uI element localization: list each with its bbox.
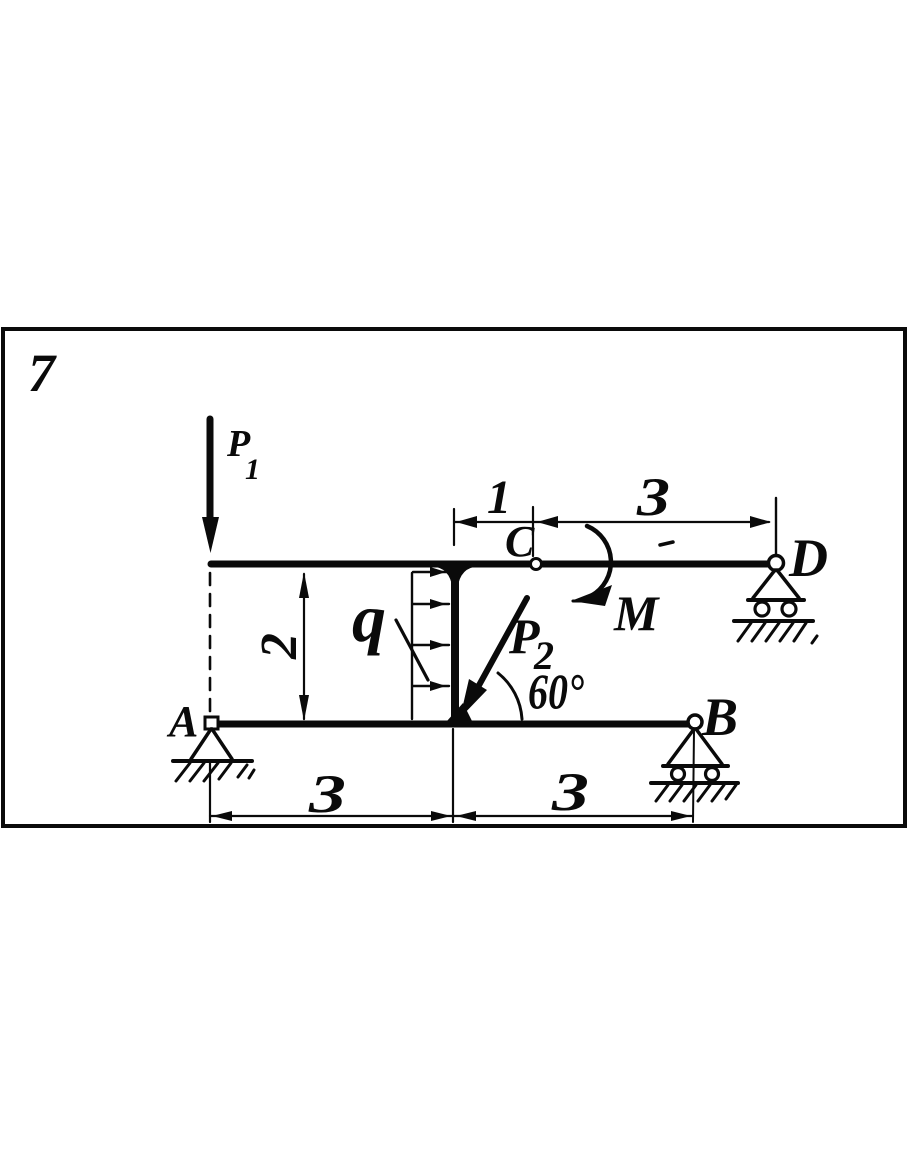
svg-text:3: 3 [636, 467, 670, 527]
distributed load q line [411, 573, 413, 719]
moment M tail stroke [573, 600, 590, 603]
support B triangle [668, 729, 722, 764]
bottom dim arrowhead mid pointing left [456, 811, 476, 821]
tick line below B to dimension line [693, 730, 694, 822]
svg-text:A: A [166, 697, 198, 746]
small dash above beam [660, 542, 673, 545]
svg-text:1: 1 [245, 453, 260, 486]
svg-text:2: 2 [251, 633, 308, 660]
fillet right at top joint [457, 567, 474, 594]
support A pin node [205, 717, 218, 729]
vertical column member [451, 566, 459, 721]
svg-text:C: C [505, 517, 535, 566]
force P2 arrow [460, 598, 527, 718]
bottom dim arrowhead at B pointing right [671, 811, 691, 821]
q arrow 1 [413, 567, 449, 577]
border frame [3, 329, 905, 826]
bottom dimension line [210, 815, 693, 817]
tick line above D [775, 498, 777, 556]
moment M arc [587, 526, 611, 596]
middle tick line below column [452, 729, 454, 822]
dim 2 arrowhead up [299, 572, 309, 598]
support D triangle base [748, 598, 804, 602]
support D node circle [769, 556, 784, 571]
top dim arrowhead at D pointing right [750, 516, 771, 528]
svg-text:7: 7 [28, 343, 57, 403]
svg-text:q: q [352, 580, 386, 656]
svg-text:1: 1 [487, 471, 511, 524]
dim 2 arrowhead down [299, 695, 309, 721]
node C circle [531, 559, 542, 570]
support B ground line [651, 781, 738, 785]
support B rollers [672, 768, 685, 781]
angle arc 60 [498, 673, 522, 719]
junction blob at bottom of column [447, 703, 472, 721]
support D ground line [734, 619, 813, 623]
top dimension tick at 454 [453, 509, 455, 545]
bottom beam A-B [207, 721, 690, 728]
support D triangle [753, 570, 799, 598]
svg-text:3: 3 [551, 762, 589, 822]
svg-text:M: M [613, 585, 660, 641]
support A ground line [173, 759, 252, 763]
force P1 arrow [202, 419, 219, 553]
top dimension line [454, 521, 769, 523]
q arrow 2 [413, 599, 449, 609]
label P2 [508, 608, 554, 678]
svg-text:3: 3 [308, 764, 346, 824]
vertical dimension line 2 [303, 574, 305, 719]
bottom dim arrowhead mid pointing right [431, 811, 451, 821]
bottom dim arrowhead at A pointing left [212, 811, 232, 821]
support B hatching [656, 785, 736, 801]
svg-text:D: D [788, 528, 828, 588]
tick line below A to dimension line [209, 762, 211, 822]
support B node circle [688, 715, 702, 729]
support B triangle base [663, 764, 728, 768]
top dim arrowhead at C pointing left [537, 516, 558, 528]
support A triangle [191, 729, 232, 759]
top dim arrowhead left end [456, 516, 477, 528]
support D rollers [755, 602, 769, 616]
q leader stroke [396, 620, 428, 680]
svg-text:60°: 60° [528, 663, 584, 719]
dashed construction line below P1 to A [209, 573, 212, 713]
support D hatching [738, 623, 817, 643]
q arrow 4 [413, 681, 449, 691]
top beam C-D [211, 561, 769, 568]
label P1 [226, 423, 260, 486]
svg-text:B: B [701, 687, 738, 747]
support A hatching [176, 763, 254, 781]
moment M arrowhead [571, 585, 612, 606]
fillet left at top joint [436, 567, 453, 594]
q arrow 3 [413, 640, 449, 650]
node C tick [532, 507, 534, 556]
